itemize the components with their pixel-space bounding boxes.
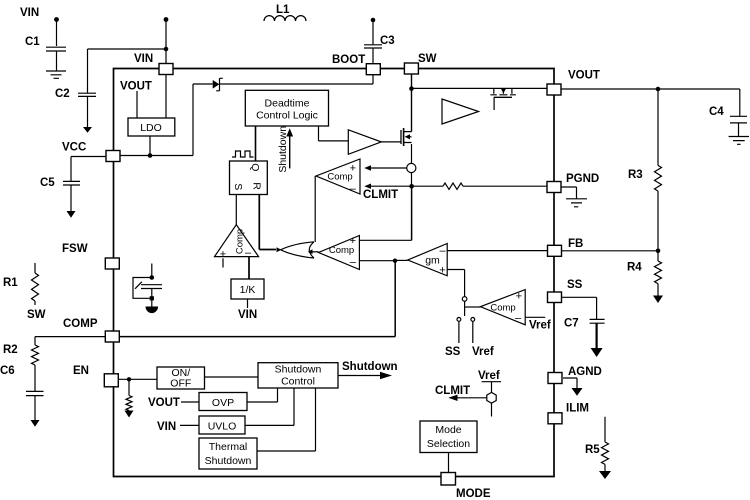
svg-text:Selection: Selection [427,438,470,450]
svg-text:R5: R5 [585,444,600,456]
svg-text:Comp: Comp [490,303,515,314]
svg-text:AGND: AGND [568,366,602,378]
svg-text:VCC: VCC [62,142,86,154]
svg-text:VIN: VIN [157,421,176,433]
svg-text:LDO: LDO [140,122,162,134]
svg-text:S: S [232,183,244,190]
svg-text:SW: SW [27,309,46,321]
svg-text:–: – [515,313,522,325]
svg-text:–: – [350,257,357,269]
svg-text:EN: EN [73,365,89,377]
svg-text:Thermal: Thermal [209,441,248,453]
svg-text:Shutdown: Shutdown [205,455,252,467]
svg-text:VIN: VIN [134,53,153,65]
svg-text:MODE: MODE [456,488,491,500]
svg-text:VOUT: VOUT [568,70,600,82]
svg-text:gm: gm [425,255,440,267]
svg-text:C7: C7 [564,318,579,330]
svg-text:FSW: FSW [62,243,88,255]
svg-text:BOOT: BOOT [332,54,365,66]
svg-text:VOUT: VOUT [120,81,152,93]
svg-text:VIN: VIN [20,7,39,19]
svg-text:OVP: OVP [212,397,234,409]
svg-text:R1: R1 [3,277,18,289]
svg-text:R2: R2 [3,344,18,356]
svg-text:+: + [516,291,522,303]
svg-text:Q: Q [249,163,261,171]
svg-text:C1: C1 [25,36,40,48]
svg-text:Vref: Vref [529,320,551,332]
svg-text:OFF: OFF [170,378,191,390]
svg-text:–: – [439,245,446,257]
svg-text:R3: R3 [628,169,643,181]
svg-text:UVLO: UVLO [208,421,237,433]
svg-text:Shutdown: Shutdown [275,364,322,376]
svg-text:+: + [350,235,356,247]
svg-text:C3: C3 [380,35,395,47]
svg-text:CLMIT: CLMIT [363,189,398,201]
svg-text:+: + [220,249,226,261]
svg-text:C2: C2 [55,88,70,100]
svg-text:PGND: PGND [566,173,599,185]
svg-text:C6: C6 [0,365,15,377]
svg-text:C5: C5 [40,177,55,189]
svg-text:+: + [439,265,445,277]
svg-text:Shutdown: Shutdown [277,126,289,173]
svg-text:ILIM: ILIM [566,403,589,415]
svg-text:R: R [251,182,263,190]
svg-text:–: – [350,183,357,195]
svg-text:Shutdown: Shutdown [342,361,398,373]
svg-text:–: – [245,247,252,259]
svg-text:Comp: Comp [235,229,246,254]
svg-text:Vref: Vref [478,370,500,382]
svg-text:FB: FB [568,238,583,250]
svg-text:+: + [350,163,356,175]
svg-text:C4: C4 [709,106,724,118]
svg-text:SS: SS [567,279,583,291]
svg-text:Mode: Mode [435,424,461,436]
svg-text:Control Logic: Control Logic [256,110,318,122]
svg-text:Deadtime: Deadtime [265,98,310,110]
svg-text:L1: L1 [276,4,290,16]
svg-text:VIN: VIN [238,309,257,321]
svg-text:VOUT: VOUT [148,397,180,409]
svg-text:R4: R4 [627,262,642,274]
svg-text:Control: Control [281,376,315,388]
svg-text:SW: SW [418,53,437,65]
svg-text:CLMIT: CLMIT [435,385,470,397]
svg-text:Vref: Vref [472,346,494,358]
svg-text:COMP: COMP [63,318,98,330]
svg-text:1/K: 1/K [240,284,256,296]
svg-text:SS: SS [445,346,461,358]
